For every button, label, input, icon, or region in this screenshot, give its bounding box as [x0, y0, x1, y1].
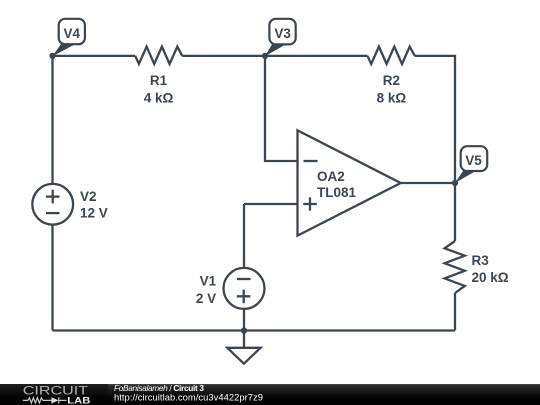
- svg-text:V2: V2: [80, 189, 97, 204]
- svg-text:OA2: OA2: [317, 169, 345, 184]
- svg-text:12 V: 12 V: [80, 205, 108, 220]
- svg-text:2 V: 2 V: [196, 291, 216, 306]
- svg-text:V1: V1: [200, 274, 217, 289]
- svg-text:LAB: LAB: [67, 396, 90, 405]
- svg-text:R1: R1: [150, 73, 168, 88]
- svg-text:20 kΩ: 20 kΩ: [472, 270, 509, 285]
- svg-text:V3: V3: [274, 26, 291, 41]
- svg-text:TL081: TL081: [317, 185, 357, 200]
- svg-text:R3: R3: [472, 253, 490, 268]
- svg-text:V4: V4: [64, 26, 81, 41]
- svg-text:http://circuitlab.com/cu3v4422: http://circuitlab.com/cu3v4422pr7z9: [114, 392, 263, 403]
- svg-text:4 kΩ: 4 kΩ: [144, 90, 174, 105]
- svg-text:R2: R2: [383, 73, 400, 88]
- svg-text:8 kΩ: 8 kΩ: [377, 90, 407, 105]
- svg-text:V5: V5: [465, 153, 482, 168]
